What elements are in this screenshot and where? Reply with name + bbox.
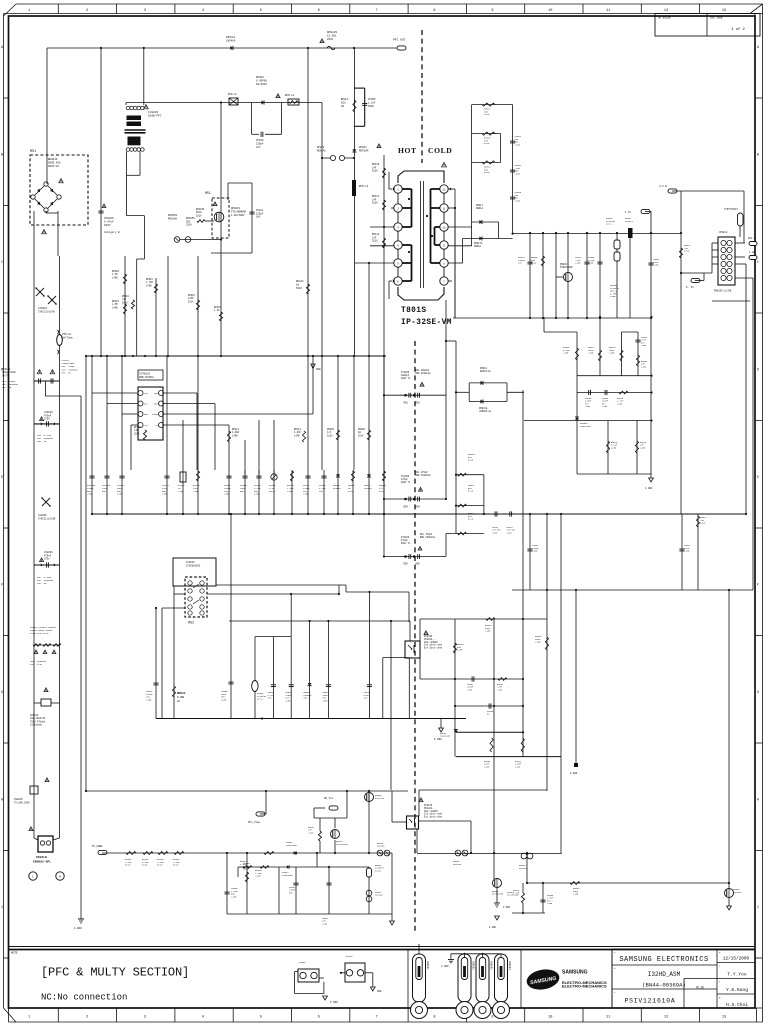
svg-text:1.4F: 1.4F: [214, 309, 220, 312]
svg-text:L43B: L43B: [585, 405, 591, 408]
svg-text:25V: 25V: [518, 262, 523, 265]
svg-text:5216: 5216: [372, 170, 378, 173]
svg-text:6A/7M: 6A/7M: [2, 374, 10, 377]
svg-text:E: E: [757, 476, 759, 480]
svg-text:L43B: L43B: [485, 630, 491, 633]
svg-text:3: 3: [144, 9, 146, 13]
svg-text:T801S: T801S: [401, 307, 426, 315]
svg-text:KIA441AM: KIA441AM: [286, 844, 297, 847]
svg-text:PWM(TA1S9S): PWM(TA1S9S): [139, 376, 154, 379]
svg-text:GND: GND: [377, 990, 382, 993]
svg-text:12: 12: [664, 9, 668, 13]
svg-text:10: 10: [548, 9, 552, 13]
svg-text:RD5: RD5: [404, 563, 409, 566]
svg-text:C: C: [757, 261, 759, 265]
svg-text:L43B: L43B: [641, 365, 647, 368]
svg-text:I32HD_ASM: I32HD_ASM: [648, 971, 681, 978]
svg-text:KTUL147: KTUL147: [375, 797, 385, 800]
svg-text:KIA441AM: KIA441AM: [282, 874, 293, 877]
svg-text:1 of 2: 1 of 2: [731, 27, 745, 32]
svg-text:KDS1A6: KDS1A6: [377, 845, 385, 848]
svg-text:(BN44-00369A): (BN44-00369A): [642, 982, 686, 989]
svg-text:L43B: L43B: [641, 344, 647, 347]
svg-text:5: 5: [260, 1016, 262, 1020]
svg-text:(ER506-GL: (ER506-GL: [479, 410, 492, 413]
svg-text:RY802: RY802: [346, 955, 353, 958]
svg-text:CYKC21(L6)KB: CYKC21(L6)KB: [38, 517, 56, 520]
svg-text:LKV: LKV: [256, 216, 261, 219]
svg-text:5.1KF: 5.1KF: [513, 892, 520, 895]
svg-text:12: 12: [664, 1016, 668, 1020]
svg-text:GSE INHB: GSE INHB: [710, 17, 723, 20]
svg-text:5216: 5216: [684, 250, 690, 253]
svg-text:KGT-2: KGT-2: [304, 697, 311, 700]
svg-text:L43B: L43B: [653, 264, 659, 267]
svg-text:F: F: [1, 584, 3, 588]
svg-text:1.7V: 1.7V: [625, 211, 632, 214]
svg-text:5216: 5216: [142, 864, 148, 867]
svg-text:L43B: L43B: [640, 446, 646, 449]
svg-text:RD2: RD2: [416, 402, 421, 405]
svg-text:6: 6: [318, 1016, 320, 1020]
svg-text:L43B: L43B: [507, 531, 513, 534]
svg-text:4A B010B: 4A B010B: [658, 17, 671, 20]
svg-text:9: 9: [491, 1016, 493, 1020]
svg-text:250V: 250V: [327, 38, 334, 41]
svg-text:PK1A11: PK1A11: [625, 220, 634, 223]
svg-text:MS1: MS1: [205, 191, 211, 195]
svg-text:L43B: L43B: [684, 550, 690, 553]
svg-text:Min. 1/4W: Min. 1/4W: [30, 663, 43, 666]
svg-text:RD91A6: RD91A6: [317, 149, 326, 152]
svg-text:Ext dist:<ohm: Ext dist:<ohm: [424, 816, 443, 819]
svg-text:13: 13: [722, 1016, 726, 1020]
svg-text:5216: 5216: [296, 287, 303, 290]
svg-text:N: N: [59, 876, 61, 879]
svg-text:CN8603: CN8603: [490, 961, 493, 970]
svg-text:4: 4: [202, 1016, 204, 1020]
svg-text:L43B: L43B: [117, 493, 123, 496]
svg-text:SAMSUNG: SAMSUNG: [562, 970, 588, 976]
svg-text:5216: 5216: [157, 864, 163, 867]
svg-text:1: 1: [28, 1016, 30, 1020]
svg-text:6: 6: [318, 9, 320, 13]
svg-text:CPA667: CPA667: [333, 487, 342, 490]
svg-text:H: H: [757, 799, 759, 803]
svg-text:521A: 521A: [196, 214, 202, 217]
svg-text:IP-32SE-VM: IP-32SE-VM: [401, 319, 452, 327]
svg-text:RD3: RD3: [404, 506, 409, 509]
svg-text:CM812: CM812: [719, 231, 728, 234]
svg-text:L43B: L43B: [457, 649, 463, 652]
svg-text:PFC OUT: PFC OUT: [393, 39, 406, 42]
svg-text:4: 4: [202, 9, 204, 13]
svg-text:5216: 5216: [484, 171, 490, 174]
svg-text:L43B: L43B: [547, 902, 553, 905]
svg-text:2630: 2630: [322, 699, 328, 702]
svg-text:L43B: L43B: [611, 446, 617, 449]
svg-text:KDS1A6: KDS1A6: [733, 891, 742, 894]
svg-text:A GND: A GND: [645, 487, 653, 490]
svg-text:L43B: L43B: [87, 493, 93, 496]
svg-text:P GND: P GND: [330, 1001, 338, 1004]
svg-text:5216: 5216: [700, 522, 706, 525]
svg-text:EN9002-GPL: EN9002-GPL: [33, 861, 51, 864]
svg-text:CPA667: CPA667: [364, 487, 373, 490]
svg-text:Min. 3Ω: Min. 3Ω: [37, 582, 47, 585]
svg-text:1W: 1W: [341, 105, 345, 108]
svg-text:PC_GNRE: PC_GNRE: [92, 845, 103, 848]
svg-text:KCT21: KCT21: [375, 869, 382, 872]
svg-text:5216: 5216: [468, 490, 474, 493]
svg-text:16V: 16V: [319, 490, 324, 493]
svg-text:5216: 5216: [134, 432, 140, 435]
svg-text:D: D: [757, 369, 759, 373]
svg-text:L43B: L43B: [112, 276, 118, 279]
svg-text:0.47uF: 0.47uF: [104, 221, 114, 224]
svg-text:L43B: L43B: [231, 895, 237, 898]
svg-text:L43B: L43B: [467, 688, 473, 691]
svg-text:L43B: L43B: [285, 699, 291, 702]
svg-text:KDS1A6: KDS1A6: [519, 867, 528, 870]
svg-text:B: B: [757, 154, 759, 158]
svg-text:KGT-2: KGT-2: [269, 490, 276, 493]
svg-text:A GND: A GND: [74, 927, 82, 930]
svg-text:13: 13: [722, 9, 726, 13]
svg-text:11: 11: [606, 9, 610, 13]
svg-text:L43B: L43B: [610, 295, 616, 298]
svg-text:CN8604: CN8604: [508, 961, 511, 970]
svg-text:5216: 5216: [372, 240, 378, 243]
svg-text:5216: 5216: [348, 490, 354, 493]
svg-text:A GND: A GND: [570, 772, 578, 775]
svg-text:L43B: L43B: [308, 831, 314, 834]
svg-text:L43B: L43B: [178, 490, 184, 493]
svg-text:CYKC2(L6)KB: CYKC2(L6)KB: [38, 310, 55, 313]
svg-text:11: 11: [442, 207, 446, 210]
svg-text:DC1.5: DC1.5: [748, 237, 756, 240]
svg-text:RD91A6: RD91A6: [168, 217, 178, 220]
svg-text:521A: 521A: [186, 224, 192, 227]
svg-text:L43B: L43B: [146, 284, 152, 287]
svg-text:5216 5216 5216: 5216 5216 5216: [30, 632, 49, 635]
svg-text:6B01A: 6B01A: [474, 245, 482, 248]
svg-text:P GND: P GND: [503, 906, 511, 909]
svg-text:8: 8: [433, 1016, 435, 1020]
svg-text:L43B: L43B: [287, 490, 293, 493]
svg-text:4.2 B: 4.2 B: [659, 185, 667, 188]
svg-text:GND: GND: [316, 368, 321, 371]
svg-text:L43B: L43B: [492, 531, 498, 534]
svg-text:6. 3V: 6. 3V: [686, 286, 694, 289]
svg-text:L43B: L43B: [515, 199, 521, 202]
svg-text:L43B: L43B: [303, 493, 309, 496]
svg-text:6A/7ohm: 6A/7ohm: [62, 336, 73, 339]
svg-text:L43B: L43B: [575, 262, 581, 265]
svg-text:5216: 5216: [484, 113, 490, 116]
svg-text:5216: 5216: [484, 142, 490, 145]
svg-text:PFC_View: PFC_View: [248, 821, 261, 824]
svg-text:BCM-L2: BCM-L2: [285, 94, 295, 97]
svg-text:275V: 275V: [44, 418, 50, 421]
svg-text:6B01A: 6B01A: [476, 207, 484, 210]
svg-text:12: 12: [442, 188, 446, 191]
svg-text:6A/600V: 6A/600V: [256, 82, 267, 86]
svg-text:H.S.Choi: H.S.Choi: [726, 1002, 748, 1008]
svg-text:A GND: A GND: [441, 965, 449, 968]
svg-text:L43B: L43B: [617, 402, 623, 405]
svg-text:50V: 50V: [102, 490, 107, 493]
svg-text:L43B: L43B: [609, 352, 615, 355]
svg-text:P GND: P GND: [434, 738, 442, 741]
svg-text:5216: 5216: [125, 864, 131, 867]
svg-text:L43B: L43B: [588, 262, 594, 265]
svg-text:BCM-L3: BCM-L3: [359, 185, 369, 188]
svg-text:ELECTRO-MECHANICS: ELECTRO-MECHANICS: [562, 984, 607, 989]
svg-text:KIA441AM: KIA441AM: [440, 735, 451, 738]
svg-text:600V/4A: 600V/4A: [48, 164, 59, 168]
svg-text:LF801S: LF801S: [148, 111, 158, 114]
svg-text:KTK5122GB: KTK5122GB: [492, 893, 504, 896]
svg-text:51Ω: 51Ω: [268, 697, 273, 700]
svg-text:2: 2: [86, 1016, 88, 1020]
svg-text:I: I: [757, 906, 759, 910]
svg-text:G: G: [757, 691, 759, 695]
svg-text:RD1: RD1: [404, 402, 409, 405]
svg-text:L43B: L43B: [112, 306, 118, 309]
svg-text:RCM-L2: RCM-L2: [228, 93, 237, 96]
svg-text:KDS1A6: KDS1A6: [453, 863, 462, 866]
svg-text:10: 10: [548, 1016, 552, 1020]
svg-text:Min. 3Ω: Min. 3Ω: [2, 386, 12, 389]
svg-text:P804LB: P804LB: [36, 856, 47, 859]
svg-text:C: C: [1, 261, 3, 265]
svg-text:L43B: L43B: [515, 143, 521, 146]
svg-text:KCT-2: KCT-2: [257, 698, 264, 701]
svg-text:L43B: L43B: [162, 493, 168, 496]
svg-text:PN8203-LC/DB: PN8203-LC/DB: [714, 290, 732, 293]
svg-text:12/15/2009: 12/15/2009: [723, 957, 750, 962]
svg-text:1.5Ω: 1.5Ω: [177, 696, 184, 699]
svg-text:5216: 5216: [173, 864, 179, 867]
svg-text:S10B-PFC: S10B-PFC: [148, 115, 162, 118]
svg-text:ROE 2630ohm: ROE 2630ohm: [415, 474, 431, 477]
svg-text:16V: 16V: [364, 697, 369, 700]
svg-text:5216: 5216: [468, 459, 474, 462]
svg-text:1.8A: 1.8A: [749, 251, 756, 254]
svg-text:L43B: L43B: [322, 922, 328, 925]
svg-text:RGP10M: RGP10M: [359, 150, 369, 153]
svg-text:ROE 2630ohm: ROE 2630ohm: [415, 372, 431, 375]
svg-text:ROE 2630ohm: ROE 2630ohm: [420, 536, 436, 539]
svg-text:L43B: L43B: [294, 434, 300, 437]
svg-text:ER504-GL: ER504-GL: [480, 370, 492, 373]
svg-text:5216: 5216: [372, 202, 378, 205]
svg-text:L43B: L43B: [515, 765, 521, 768]
svg-text:ICS08816S2: ICS08816S2: [186, 564, 201, 567]
svg-text:L43B: L43B: [254, 493, 260, 496]
svg-text:L43B: L43B: [535, 641, 541, 644]
svg-text:L43B: L43B: [497, 688, 503, 691]
svg-text:NOTE: NOTE: [11, 952, 18, 955]
svg-text:L: L: [32, 876, 34, 879]
svg-text:KDS1A6: KDS1A6: [375, 894, 383, 897]
svg-text:CP801S: CP801S: [104, 217, 114, 220]
svg-text:I: I: [1, 906, 3, 910]
svg-text:STAND: STAND: [152, 413, 159, 416]
svg-text:11: 11: [606, 1016, 610, 1020]
svg-text:L43B: L43B: [573, 893, 579, 896]
svg-text:KCT-2: KCT-2: [606, 223, 613, 226]
svg-text:DP_TL2: DP_TL2: [324, 797, 334, 800]
svg-text:L43B: L43B: [255, 875, 261, 878]
svg-text:CN8602: CN8602: [472, 961, 475, 970]
svg-text:L43B: L43B: [146, 698, 152, 701]
svg-text:400V YL: 400V YL: [401, 542, 411, 545]
svg-text:7: 7: [376, 1016, 378, 1020]
svg-text:KTN2641TA: KTN2641TA: [336, 843, 349, 846]
svg-text:KTN2641GR: KTN2641GR: [560, 266, 573, 269]
svg-text:5216: 5216: [188, 300, 194, 303]
svg-text:NC:No connection: NC:No connection: [41, 993, 127, 1003]
svg-text:E: E: [1, 476, 3, 480]
svg-text:5216: 5216: [327, 434, 333, 437]
svg-text:RM843: RM843: [177, 692, 186, 695]
svg-text:L43B: L43B: [563, 352, 569, 355]
svg-text:630V: 630V: [368, 105, 375, 108]
svg-text:10: 10: [442, 226, 446, 229]
svg-text:50V: 50V: [240, 490, 245, 493]
svg-text:Ext dist:<ohm: Ext dist:<ohm: [424, 647, 443, 650]
svg-text:L43B: L43B: [588, 352, 594, 355]
svg-text:TVSTSYUGXT: TVSTSYUGXT: [724, 208, 738, 211]
svg-text:L43B: L43B: [193, 490, 199, 493]
svg-text:L43B: L43B: [221, 698, 227, 701]
svg-text:TS.6AR_250V: TS.6AR_250V: [14, 801, 30, 804]
svg-text:B: B: [1, 154, 3, 158]
svg-text:SAMSUNG ELECTRONICS: SAMSUNG ELECTRONICS: [619, 956, 708, 964]
svg-text:L43B: L43B: [602, 405, 608, 408]
svg-text:L43B: L43B: [232, 434, 238, 437]
svg-text:5216: 5216: [531, 262, 537, 265]
svg-text:RY801: RY801: [299, 961, 306, 964]
svg-text:5216: 5216: [468, 518, 474, 521]
svg-text:LN540A: LN540A: [226, 40, 236, 43]
svg-text:A GND: A GND: [489, 926, 497, 929]
svg-text:630V: 630V: [104, 224, 111, 227]
svg-text:Min. 3Ω: Min. 3Ω: [62, 371, 72, 374]
svg-text:KIA441AM: KIA441AM: [580, 425, 591, 428]
svg-text:Y.K.Kang: Y.K.Kang: [726, 987, 748, 993]
svg-text:COLD: COLD: [428, 146, 452, 155]
svg-text:PSIV121610A: PSIV121610A: [625, 998, 676, 1005]
svg-text:R.B: R.B: [696, 987, 704, 991]
svg-text:5: 5: [260, 9, 262, 13]
svg-text:T.Y.Yoo: T.Y.Yoo: [727, 972, 747, 978]
svg-text:Category B: Category B: [104, 231, 120, 234]
svg-text:1.0A/600V: 1.0A/600V: [231, 214, 245, 217]
svg-text:RS2: RS2: [188, 622, 194, 626]
svg-text:LKV: LKV: [256, 146, 261, 149]
svg-text:8: 8: [433, 9, 435, 13]
svg-text:400V YL: 400V YL: [401, 481, 411, 484]
svg-text:G: G: [1, 691, 3, 695]
svg-text:2: 2: [86, 9, 88, 13]
svg-text:3: 3: [144, 1016, 146, 1020]
svg-text:HOT: HOT: [398, 146, 417, 155]
svg-text:5216: 5216: [122, 301, 128, 304]
svg-text:(9/10ohm): (9/10ohm): [30, 724, 42, 727]
svg-text:400V YL: 400V YL: [401, 377, 411, 380]
svg-text:RD6: RD6: [416, 563, 421, 566]
svg-text:Min. 3Ω: Min. 3Ω: [37, 440, 47, 443]
svg-text:5216: 5216: [358, 434, 364, 437]
svg-text:L43B: L43B: [484, 765, 490, 768]
svg-text:RD4: RD4: [416, 506, 421, 509]
svg-text:L43B: L43B: [515, 172, 521, 175]
svg-text:[PFC & MULTY SECTION]: [PFC & MULTY SECTION]: [41, 966, 189, 980]
svg-text:1: 1: [28, 9, 30, 13]
svg-text:7: 7: [376, 9, 378, 13]
svg-text:H: H: [1, 799, 3, 803]
svg-text:CN8601: CN8601: [426, 961, 429, 970]
svg-text:275v: 275v: [44, 558, 50, 561]
svg-text:MS1: MS1: [30, 150, 36, 154]
svg-text:F: F: [757, 584, 759, 588]
svg-text:L43B: L43B: [532, 550, 538, 553]
svg-text:L43B: L43B: [224, 493, 230, 496]
svg-text:9: 9: [491, 9, 493, 13]
